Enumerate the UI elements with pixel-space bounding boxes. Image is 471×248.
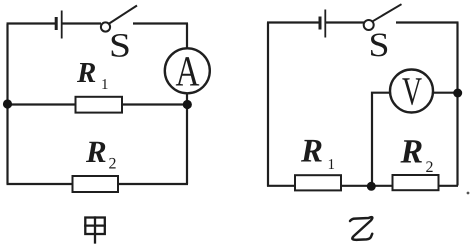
svg-text:1: 1 <box>101 77 109 93</box>
svg-text:A: A <box>176 49 200 96</box>
resistor R2 (right circuit) <box>393 175 439 190</box>
svg-text:R: R <box>400 134 424 171</box>
voltmeter V (right circuit) <box>390 69 433 114</box>
svg-text:S: S <box>369 27 390 64</box>
wire: R2 branch bottom wire (left circuit) <box>7 183 189 185</box>
ammeter A (left circuit) <box>165 48 210 95</box>
svg-text:1: 1 <box>328 157 336 173</box>
wire: switch to top-right corner <box>133 22 188 24</box>
wire: voltmeter right lead to right vertical <box>432 92 458 94</box>
label 乙 (right circuit caption, drawn stroke) <box>350 217 372 240</box>
wire: left circuit top wire from corner to battery <box>7 22 56 24</box>
svg-text:2: 2 <box>109 156 117 173</box>
wire: battery to switch (right circuit) <box>326 21 364 23</box>
switch S (left circuit): pivot circle and lever <box>101 6 137 32</box>
switch S (right circuit): pivot circle and lever <box>364 4 402 30</box>
svg-text:R: R <box>85 134 107 169</box>
wire: battery to switch <box>63 22 102 24</box>
wire: left circuit right vertical (through ammeter, down to bottom-right corner) <box>186 24 188 185</box>
svg-text:S: S <box>109 28 131 65</box>
node: left junction dot <box>3 99 12 108</box>
node: right junction dot <box>183 100 192 109</box>
wire: right circuit right vertical <box>456 23 458 186</box>
wire: switch to top-right corner (right circuit) <box>396 21 459 23</box>
speck (scan artifact bottom right) <box>467 192 470 195</box>
battery B2 (right circuit cell) <box>320 10 325 38</box>
svg-text:2: 2 <box>426 159 434 176</box>
battery B1 (left circuit cell) <box>56 11 62 39</box>
wire: voltmeter left lead and mid vertical to R1-R2 junction <box>372 93 390 187</box>
svg-text:V: V <box>402 69 422 114</box>
resistor R1 (right circuit) <box>295 175 341 190</box>
label 甲 (left circuit caption, drawn strokes) <box>85 218 105 243</box>
node: R1-R2 junction dot (right circuit) <box>367 182 376 191</box>
wire: right circuit top wire from corner to battery <box>267 21 319 23</box>
resistor R1 (left circuit) <box>76 97 123 113</box>
wire: right circuit left vertical <box>267 23 269 187</box>
svg-text:R: R <box>300 134 323 170</box>
wire: left circuit left vertical <box>6 24 8 184</box>
node: junction dot on right vertical at voltmeter lead <box>453 89 462 98</box>
wire: right circuit bottom wire <box>267 185 458 187</box>
svg-text:R: R <box>76 57 96 89</box>
wire: R1 branch horizontal (left circuit) <box>8 103 188 105</box>
resistor R2 (left circuit) <box>73 176 119 192</box>
